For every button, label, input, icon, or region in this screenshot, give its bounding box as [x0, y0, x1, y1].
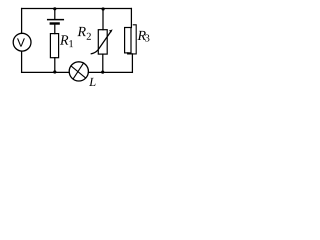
wire battery to R1 [54, 25, 56, 34]
label R2 subscript 2 [87, 33, 91, 40]
voltmeter V1 circle [13, 33, 31, 51]
lamp L circle [69, 62, 88, 81]
wire left rail upper [21, 9, 23, 34]
wire R2 branch from top rail [102, 9, 104, 30]
resistor R2 box [98, 30, 107, 54]
wire R1 to bottom rail [54, 58, 56, 73]
voltmeter letter V [17, 38, 25, 46]
junction dot R2 top [102, 7, 105, 10]
battery long plate [48, 19, 64, 21]
wire right side zigzag [128, 25, 136, 54]
wire bottom rail right [88, 71, 132, 73]
wire left rail lower [21, 51, 23, 72]
label R3 letter R [137, 31, 145, 40]
R2 arrowhead [109, 29, 113, 32]
wire top rail [22, 8, 132, 10]
resistor R3 box [125, 28, 131, 53]
resistor R1 box [50, 34, 58, 58]
lamp X cross stroke 2 [73, 63, 84, 79]
label R3 subscript 3 [145, 34, 149, 41]
junction dot R2 bottom [101, 71, 104, 74]
lamp X cross stroke 1 [71, 66, 86, 78]
wire bottom rail left [22, 71, 70, 73]
label R1 subscript 1 [69, 40, 73, 47]
wire battery branch from top rail [54, 9, 56, 19]
R2 arrow diagonal [91, 31, 111, 53]
label R2 letter R [77, 27, 85, 36]
wire right rail lower [131, 54, 133, 73]
battery short thick plate [51, 22, 59, 24]
wire R3 bottom stub [127, 53, 129, 54]
wire R2 to bottom rail [102, 54, 104, 72]
junction dot battery top [53, 7, 56, 10]
label L lamp [89, 78, 96, 86]
label R1 letter R [60, 35, 68, 44]
junction dot R1 bottom [53, 70, 56, 73]
wire right rail upper [130, 9, 132, 28]
